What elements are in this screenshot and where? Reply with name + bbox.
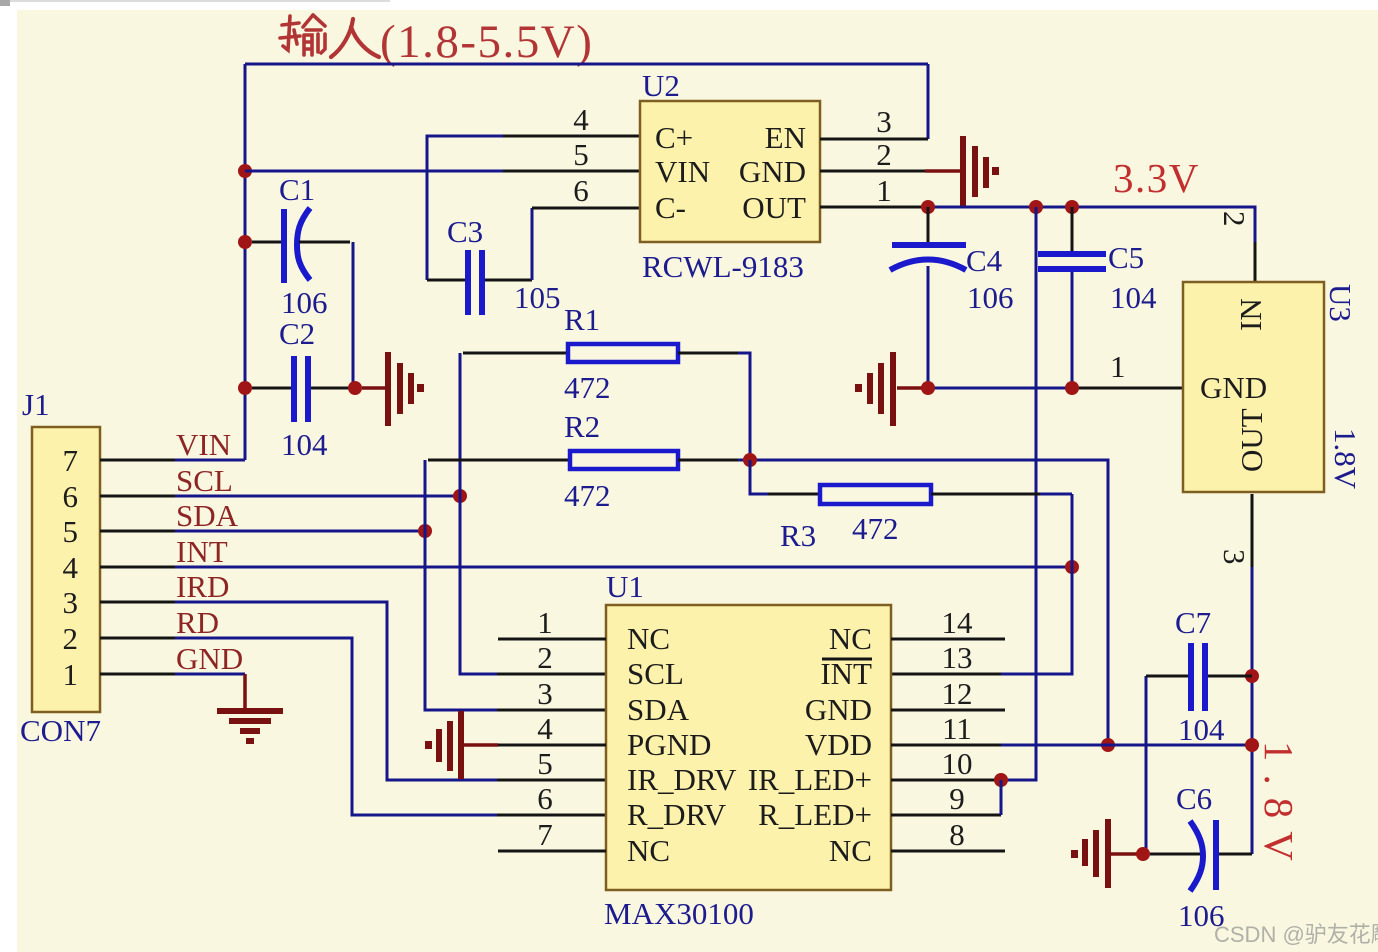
- ground on GND line: [855, 352, 926, 426]
- svg-text:4: 4: [573, 102, 589, 137]
- svg-text:C7: C7: [1175, 605, 1211, 640]
- connector J1: [32, 427, 100, 712]
- svg-text:SDA: SDA: [176, 498, 239, 533]
- title 输入(1.8-5.5V): [280, 15, 325, 55]
- svg-text:SCL: SCL: [627, 656, 684, 691]
- svg-text:EN: EN: [765, 120, 806, 155]
- wire left rail VIN net: [244, 64, 247, 460]
- IC U1 MAX30100: [606, 605, 891, 890]
- node SCL: [453, 489, 467, 503]
- svg-text:C1: C1: [279, 172, 315, 207]
- svg-text:U2: U2: [642, 68, 680, 103]
- resistor R2: [428, 451, 1108, 745]
- svg-text:3.3V: 3.3V: [1113, 155, 1200, 201]
- svg-text:VIN: VIN: [655, 154, 710, 189]
- svg-text:NC: NC: [829, 833, 872, 868]
- svg-text:1.8V: 1.8V: [1328, 428, 1363, 490]
- wire VIN from J1: [175, 459, 245, 462]
- wire SDA net: [175, 530, 425, 533]
- svg-text:104: 104: [1110, 280, 1157, 315]
- wire U2 pin4 branch to C3: [427, 136, 503, 280]
- ground at U2 pin2: [925, 136, 999, 206]
- svg-text:R_LED+: R_LED+: [758, 797, 872, 832]
- svg-text:C5: C5: [1108, 240, 1144, 275]
- svg-text:3: 3: [537, 676, 553, 711]
- svg-text:6: 6: [63, 479, 79, 514]
- svg-text:(1.8-5.5V): (1.8-5.5V): [380, 16, 593, 68]
- svg-text:R_DRV: R_DRV: [627, 797, 727, 832]
- wire U2 pin2 stub: [820, 170, 925, 173]
- capacitor C3: [427, 208, 640, 315]
- svg-text:104: 104: [281, 427, 328, 462]
- wire VIN branch to U2 pin5: [245, 170, 503, 173]
- svg-text:1: 1: [876, 173, 892, 208]
- capacitor C7: [1146, 643, 1252, 854]
- svg-text:3: 3: [63, 585, 79, 620]
- node INT: [1065, 560, 1079, 574]
- svg-text:4: 4: [63, 550, 79, 585]
- svg-text:5: 5: [537, 746, 553, 781]
- svg-text:1: 1: [1110, 349, 1126, 384]
- svg-text:OUT: OUT: [1234, 408, 1269, 472]
- svg-text:IR_LED+: IR_LED+: [748, 762, 872, 797]
- U1 pin14 stub: [891, 638, 1005, 641]
- svg-text:C-: C-: [655, 190, 686, 225]
- node OUT/C5: [1065, 200, 1079, 214]
- svg-text:NC: NC: [627, 621, 670, 656]
- svg-text:IRD: IRD: [176, 569, 229, 604]
- svg-text:7: 7: [63, 443, 79, 478]
- svg-text:2: 2: [63, 621, 79, 656]
- ground near C2: [362, 352, 424, 426]
- node OUT/rail: [1029, 200, 1043, 214]
- svg-text:9: 9: [949, 781, 965, 816]
- U1 pin12 stub: [891, 709, 1005, 712]
- svg-text:8: 8: [949, 817, 965, 852]
- wire GND from J1: [175, 673, 245, 676]
- svg-text:C3: C3: [447, 214, 483, 249]
- svg-text:U1: U1: [606, 569, 644, 604]
- wire GND line to U3 pin1: [928, 387, 1072, 390]
- node rail/VDD: [1245, 738, 1259, 752]
- svg-text:6: 6: [537, 781, 553, 816]
- svg-text:472: 472: [564, 478, 611, 513]
- J1 pin stubs: [100, 459, 175, 462]
- wire IRD net to U1 pin5: [175, 602, 497, 780]
- svg-text:IN: IN: [1233, 298, 1268, 331]
- wire U3 pin3 down rail 1.8V: [1251, 494, 1254, 567]
- svg-text:GND: GND: [805, 692, 872, 727]
- wire U1 pin10 IR_LED+: [891, 779, 1001, 782]
- U1 pin1 stub: [498, 638, 606, 641]
- svg-text:VDD: VDD: [805, 727, 872, 762]
- ground at J1 pin1: [217, 674, 283, 744]
- svg-text:472: 472: [852, 511, 899, 546]
- wire INT net: [175, 566, 1072, 569]
- svg-text:MAX30100: MAX30100: [604, 896, 754, 931]
- capacitor C6: [1150, 820, 1252, 891]
- svg-text:105: 105: [514, 280, 561, 315]
- capacitor C4: [890, 207, 966, 388]
- svg-text:RCWL-9183: RCWL-9183: [642, 249, 804, 284]
- svg-text:1.8V: 1.8V: [1256, 741, 1302, 874]
- wire RD net to U1 pin6: [175, 638, 497, 815]
- svg-text:C6: C6: [1176, 781, 1212, 816]
- svg-text:472: 472: [564, 370, 611, 405]
- svg-text:2: 2: [1217, 211, 1252, 227]
- resistor R3: [750, 460, 1072, 504]
- svg-text:SDA: SDA: [627, 692, 690, 727]
- IC U2 RCWL-9183: [640, 101, 820, 242]
- node C6/C7/ground: [1136, 847, 1150, 861]
- svg-text:NC: NC: [627, 833, 670, 868]
- svg-text:VIN: VIN: [176, 427, 231, 462]
- svg-text:C+: C+: [655, 120, 693, 155]
- IC U3 regulator: [1183, 282, 1324, 492]
- resistor R1: [463, 344, 750, 460]
- svg-text:SCL: SCL: [176, 463, 233, 498]
- node R1/R2 rail: [743, 453, 757, 467]
- svg-text:5: 5: [63, 514, 79, 549]
- svg-text:13: 13: [942, 640, 973, 675]
- capacitor C1: [238, 208, 350, 283]
- svg-text:4: 4: [537, 711, 553, 746]
- svg-text:U3: U3: [1323, 284, 1358, 322]
- svg-text:GND: GND: [176, 641, 243, 676]
- ground at C6: [1071, 819, 1143, 888]
- svg-text:104: 104: [1178, 712, 1225, 747]
- svg-text:OUT: OUT: [742, 190, 806, 225]
- wire SCL net: [175, 495, 460, 498]
- svg-text:3: 3: [1217, 549, 1252, 565]
- svg-text:CSDN @驴友花雕: CSDN @驴友花雕: [1214, 922, 1378, 947]
- svg-text:7: 7: [537, 817, 553, 852]
- svg-text:NC: NC: [829, 621, 872, 656]
- svg-text:106: 106: [281, 285, 328, 320]
- capacitor C5: [1038, 207, 1106, 388]
- node rail/C7: [1245, 669, 1259, 683]
- svg-text:2: 2: [537, 640, 553, 675]
- node LED+: [994, 773, 1008, 787]
- node OUT/C4: [921, 200, 935, 214]
- ground at U1 pin4: [425, 711, 606, 779]
- svg-text:R1: R1: [564, 302, 600, 337]
- svg-text:GND: GND: [739, 154, 806, 189]
- capacitor C2: [238, 356, 350, 422]
- node SDA: [418, 524, 432, 538]
- svg-text:6: 6: [573, 173, 589, 208]
- wire U2 pin3 stub: [820, 138, 928, 141]
- svg-text:INT: INT: [820, 656, 872, 691]
- svg-text:IR_DRV: IR_DRV: [627, 762, 737, 797]
- svg-text:2: 2: [876, 137, 892, 172]
- svg-text:INT: INT: [176, 534, 228, 569]
- svg-text:14: 14: [942, 605, 974, 640]
- svg-text:12: 12: [942, 676, 973, 711]
- svg-text:GND: GND: [1200, 370, 1267, 405]
- node rail/VDD: [1101, 738, 1115, 752]
- svg-text:11: 11: [942, 711, 972, 746]
- wire VDD net: [891, 744, 1001, 747]
- svg-text:3: 3: [876, 104, 892, 139]
- svg-text:C4: C4: [966, 243, 1003, 278]
- svg-text:CON7: CON7: [20, 713, 101, 748]
- wire SCL riser to R1 and U1 pin2: [460, 353, 497, 674]
- svg-text:C2: C2: [279, 316, 315, 351]
- wire EN riser: [927, 64, 930, 139]
- node GND/C4: [921, 381, 935, 395]
- svg-text:10: 10: [942, 746, 973, 781]
- svg-text:RD: RD: [176, 605, 219, 640]
- svg-text:5: 5: [573, 137, 589, 172]
- wire 3.3V down rail to LED+: [1001, 207, 1036, 780]
- U1 pin8 stub: [891, 850, 1005, 853]
- svg-text:R3: R3: [780, 518, 816, 553]
- wire SDA riser to R2 and U1 pin3: [425, 460, 497, 710]
- wire 3.3V rail from U2 OUT to U3 IN: [820, 206, 925, 209]
- node GND/C5: [1065, 381, 1079, 395]
- wire INT riser R3 to U1 pin13: [1001, 494, 1072, 674]
- node C2 right junction: [348, 381, 362, 395]
- svg-text:106: 106: [967, 280, 1014, 315]
- wire U1 pin9 R_LED+: [891, 814, 1001, 817]
- node VIN branch: [238, 164, 252, 178]
- svg-text:J1: J1: [22, 387, 50, 422]
- U1 pin7 stub: [498, 850, 606, 853]
- wire C1 right riser: [352, 242, 355, 388]
- svg-text:R2: R2: [564, 409, 600, 444]
- wire top rail VIN net: [245, 63, 928, 66]
- svg-text:1: 1: [63, 657, 79, 692]
- svg-text:PGND: PGND: [627, 727, 711, 762]
- svg-text:1: 1: [537, 605, 553, 640]
